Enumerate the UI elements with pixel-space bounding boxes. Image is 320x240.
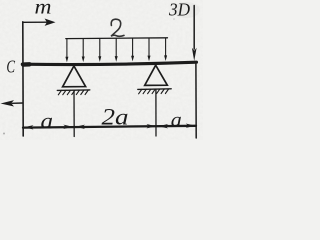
force 3D shaft [193,6,195,50]
beam left-end ink blob [23,62,29,67]
support B hatch ticks [139,89,169,94]
dim arrowhead left end (points left) [24,125,34,129]
paper background [0,0,203,140]
load arrow 7 [164,38,167,61]
load arrow 3 [98,38,101,62]
support A hatch base line [57,89,90,92]
scan smudge top right [172,2,200,18]
scan smudge below 3D [173,18,175,20]
support B triangle (right pin) [145,65,168,85]
svg-text:m: m [35,0,52,19]
svg-text:3D: 3D [168,0,190,19]
wire: left vertical line (moment arm / extension line) [22,22,24,136]
support A hatch ticks [58,90,88,95]
load arrow 2 [82,39,85,63]
beam [22,62,196,64]
support B extension line [155,90,157,136]
dimension line [23,126,196,128]
load arrow 6 [148,38,151,61]
load arrow 4 [115,38,118,61]
support A extension line [73,91,75,137]
dim arrowhead a-right (points right) [63,125,73,129]
support A triangle (left pin) [63,66,86,87]
dim arrowhead a2-left (points left) [159,124,169,128]
svg-text:a: a [41,108,54,133]
load arrow 1 [65,39,68,63]
support B hatch base line [138,88,171,91]
paper grain [0,0,203,140]
distributed load top line [66,37,168,40]
scan smudge bottom left [3,133,5,135]
svg-text:2a: 2a [102,105,129,130]
label q (handwritten) [111,19,124,36]
reaction arrow bottom-left shaft [12,102,23,104]
force 3D arrowhead [192,48,197,61]
right extension line [195,64,197,138]
svg-text:C: C [6,58,15,78]
load arrow 5 [131,38,134,61]
dim arrowhead right end (points right) [186,124,196,128]
moment m arrow shaft [23,21,48,23]
moment m arrowhead [45,19,56,26]
dim arrowhead 2a-right (points right) [147,124,157,128]
svg-text:a: a [171,107,182,131]
dim arrowhead 2a-left (points left) [76,125,86,129]
reaction arrow bottom-left head [1,100,15,106]
